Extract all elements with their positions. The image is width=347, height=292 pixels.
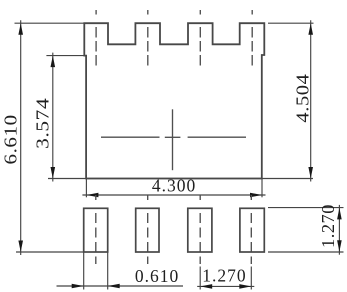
extension line top-left bbox=[15, 22, 85, 24]
center mark tick bbox=[165, 136, 181, 138]
centerline tab1 bbox=[95, 10, 97, 66]
arrow 4.504 down bbox=[308, 167, 313, 179]
svg-text:0.610: 0.610 bbox=[135, 266, 179, 286]
extension line 1.270 bottom left bbox=[199, 267, 201, 290]
svg-text:6.610: 6.610 bbox=[2, 114, 21, 164]
svg-text:4.300: 4.300 bbox=[152, 176, 196, 196]
centerline tab4 bbox=[251, 10, 253, 66]
extension line 0.610 right bbox=[107, 252, 109, 290]
center mark horizontal left bbox=[101, 136, 160, 138]
center mark horizontal right bbox=[188, 136, 246, 138]
arrow 1.270 right down bbox=[337, 240, 342, 252]
arrow 4.300 left bbox=[86, 193, 98, 198]
svg-text:1.270: 1.270 bbox=[202, 266, 246, 286]
arrow 6.610 up bbox=[18, 23, 23, 35]
svg-text:4.504: 4.504 bbox=[294, 74, 313, 123]
svg-text:3.574: 3.574 bbox=[34, 98, 53, 149]
arrow 3.574 up bbox=[51, 56, 56, 68]
arrow 0.610 left bbox=[72, 284, 84, 289]
extension line 4.300 left bbox=[85, 179, 87, 198]
extension line step-left bbox=[46, 55, 86, 57]
extension line pad-bottom-left bbox=[16, 251, 84, 253]
centerline pad3 bbox=[199, 195, 201, 264]
center mark vertical bbox=[172, 109, 174, 170]
extension line 0.610 left bbox=[83, 252, 85, 290]
pad 1 bbox=[84, 208, 108, 252]
extension line 1.270 bottom right bbox=[250, 267, 252, 290]
arrow 6.610 down bbox=[18, 241, 23, 253]
extension line top-right bbox=[268, 22, 314, 24]
pad 3 bbox=[188, 208, 212, 252]
arrow 1.270 right up bbox=[337, 208, 342, 220]
pad 2 bbox=[136, 208, 159, 252]
arrow 1.270 bottom left bbox=[200, 284, 212, 289]
centerline pad1 bbox=[95, 195, 97, 264]
extension line pad4 top right bbox=[268, 207, 344, 209]
svg-text:1.270: 1.270 bbox=[318, 204, 338, 248]
dimension line 1.270 bottom bbox=[197, 285, 254, 287]
centerline tab2 bbox=[147, 10, 149, 66]
extension line body-bottom bbox=[48, 178, 313, 180]
arrow 1.270 bottom right bbox=[239, 284, 251, 289]
dimension line 4.300 bbox=[82, 194, 265, 196]
arrow 0.610 right bbox=[108, 284, 120, 289]
dimension line 1.270 right bbox=[338, 205, 340, 255]
dimension line 4.504 bbox=[310, 20, 312, 181]
extension line 4.300 right bbox=[261, 179, 263, 198]
arrow 3.574 down bbox=[51, 167, 56, 179]
dimension line 0.610 bbox=[57, 285, 184, 287]
centerline tab3 bbox=[199, 10, 201, 66]
package body outline with top tabs bbox=[84, 23, 264, 178]
pad 4 bbox=[240, 208, 264, 252]
dimension line 6.610 bbox=[20, 20, 22, 255]
centerline pad4 bbox=[250, 195, 252, 264]
centerline pad2 bbox=[147, 195, 149, 264]
dimension line 3.574 bbox=[52, 53, 54, 182]
arrow 4.300 right bbox=[250, 193, 262, 198]
arrow 4.504 up bbox=[308, 23, 313, 35]
extension line pad4 bottom right bbox=[268, 251, 344, 253]
